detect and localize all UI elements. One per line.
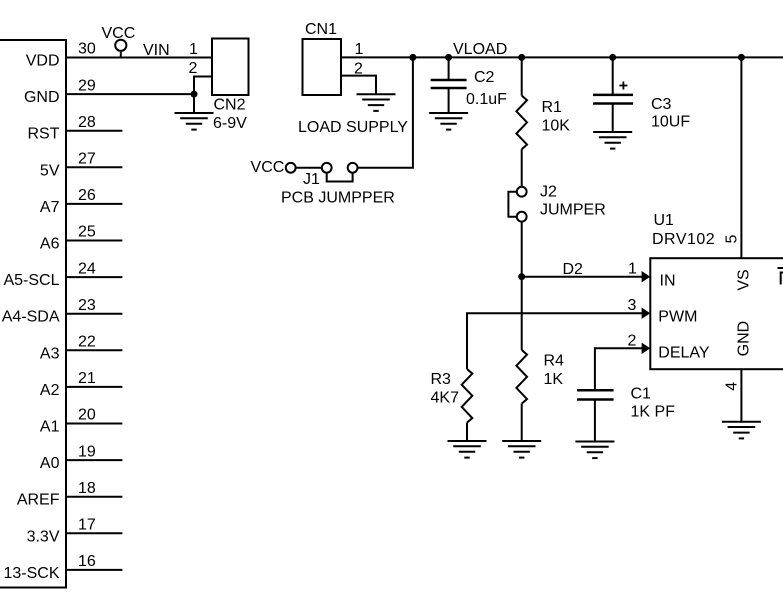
svg-text:VIN: VIN [143,42,170,59]
svg-text:0.1uF: 0.1uF [466,91,507,108]
IC U1 DRV102 body [650,258,783,369]
wire U1 pin 5 to VLOAD [740,57,742,258]
svg-text:18: 18 [78,480,96,497]
pin 21 wire [66,386,122,388]
ground (R4) [502,441,541,458]
arrow into U1 pin 1 [642,271,651,282]
svg-text:AREF: AREF [17,492,60,509]
svg-text:6-9V: 6-9V [213,115,247,132]
svg-text:C3: C3 [651,96,672,113]
svg-text:4K7: 4K7 [431,390,460,407]
wire J1 pin1-pin2 [296,167,322,169]
pin 18 wire [66,496,122,498]
pin 30 wire [66,57,212,59]
svg-text:J2: J2 [540,184,557,201]
pin 20 wire [66,423,122,425]
svg-text:30: 30 [78,41,96,58]
svg-text:1K PF: 1K PF [631,404,676,421]
jumper J2 shunt link [508,192,516,217]
svg-text:10UF: 10UF [651,114,690,131]
svg-text:19: 19 [78,443,96,460]
pin 25 wire [66,240,122,242]
svg-text:2: 2 [189,60,198,77]
pin 17 wire [66,532,122,534]
svg-text:29: 29 [78,77,96,94]
ground (C3) [593,132,632,149]
svg-text:A6: A6 [40,236,60,253]
C3 plus sign [619,82,627,90]
svg-text:17: 17 [78,517,96,534]
svg-text:21: 21 [78,370,96,387]
resistor R1 [516,57,527,186]
arrow into U1 pin 3 [642,308,651,319]
svg-text:JUMPER: JUMPER [540,202,606,219]
svg-text:A7: A7 [40,199,60,216]
connector CN1 body [303,39,342,95]
U1 right-side pin label fragment (FLAG, cut off) [778,268,783,285]
svg-text:J1: J1 [303,171,320,188]
ground stem CN2 [193,94,195,113]
jumper J1 pin 3 pad [348,163,358,173]
svg-text:25: 25 [78,224,96,241]
svg-text:DRV102: DRV102 [652,231,715,248]
junction dot J1 riser [409,54,416,61]
svg-text:27: 27 [78,151,96,168]
connector J3 host header body [0,40,66,588]
svg-text:1: 1 [355,41,364,58]
svg-text:1: 1 [189,41,198,58]
svg-text:GND: GND [24,89,60,106]
connector CN2 body [212,39,249,96]
junction dot C3 [609,54,616,61]
svg-text:10K: 10K [542,117,571,134]
ground (R3) [448,441,487,458]
svg-text:1K: 1K [544,371,564,388]
svg-text:CN2: CN2 [214,97,246,114]
svg-text:4: 4 [723,382,740,391]
resistor R3 [462,369,473,441]
junction dot node D2 [518,273,525,280]
svg-text:VCC: VCC [251,159,285,176]
svg-text:A2: A2 [40,382,60,399]
svg-text:CN1: CN1 [305,21,337,38]
svg-text:D2: D2 [563,261,584,278]
svg-text:R4: R4 [544,353,565,370]
capacitor C2 [431,57,467,113]
svg-text:C1: C1 [631,386,652,403]
pin 29 wire [66,93,194,95]
svg-text:13-SCK: 13-SCK [3,565,59,582]
ground (CN1) [357,94,396,111]
svg-text:2: 2 [628,332,637,349]
wire U1 pin 2 DELAY to C1 [595,348,642,389]
pin 26 wire [66,203,122,205]
svg-text:IN: IN [660,272,676,289]
svg-text:A3: A3 [40,345,60,362]
resistor R4 [516,350,527,441]
svg-text:23: 23 [78,297,96,314]
svg-text:A4-SDA: A4-SDA [2,309,60,326]
svg-text:VLOAD: VLOAD [453,41,507,58]
svg-text:VS: VS [736,269,753,290]
junction dot GND/CN2 [191,91,198,98]
svg-text:GND: GND [736,321,753,357]
svg-text:A0: A0 [40,455,60,472]
junction dot C2 [445,54,452,61]
svg-text:VDD: VDD [26,53,60,70]
svg-text:20: 20 [78,407,96,424]
wire J1 pin3 to VLOAD riser [358,57,413,167]
svg-text:RST: RST [28,126,60,143]
jumper J2 pin 2 pad [517,212,527,222]
junction dot R1 [518,54,525,61]
svg-text:U1: U1 [654,212,675,229]
svg-text:R1: R1 [542,99,563,116]
pin 24 wire [66,276,122,278]
svg-text:A5-SCL: A5-SCL [3,272,59,289]
svg-text:VCC: VCC [102,25,136,42]
ground (C2) [429,113,468,130]
pin 19 wire [66,459,122,461]
ground (C1) [575,442,614,459]
svg-text:3: 3 [628,297,637,314]
svg-text:PWM: PWM [658,309,697,326]
svg-text:5: 5 [723,234,740,243]
arrow into U1 pin 2 [642,343,651,354]
wire node D2 to R4 [521,277,523,350]
svg-text:16: 16 [78,553,96,570]
jumper J2 pin 1 pad [517,187,527,197]
wire J2 to node D2 [521,222,523,277]
junction dot U1 pin5 [738,54,745,61]
svg-text:1: 1 [628,261,637,278]
svg-text:26: 26 [78,187,96,204]
svg-text:DELAY: DELAY [658,344,710,361]
wire U1 pin 4 to ground [740,369,742,422]
pin 28 wire [66,130,122,132]
wire U1 pin 3 PWM to R3 [467,313,642,369]
svg-text:C2: C2 [474,69,495,86]
svg-text:LOAD SUPPLY: LOAD SUPPLY [298,119,408,136]
svg-text:22: 22 [78,334,96,351]
svg-text:3.3V: 3.3V [27,528,60,545]
capacitor C3 (polarized) [593,57,633,132]
pin 16 wire [66,569,122,571]
pin 22 wire [66,349,122,351]
svg-text:24: 24 [78,260,96,277]
CN1 pin 2 wire [341,76,376,95]
svg-text:5V: 5V [40,162,60,179]
capacitor C1 [577,390,614,441]
power terminal VCC [102,25,136,58]
ground (U1 pin4) [722,422,761,439]
wire VLOAD net (CN1 pin1 to right edge) [341,56,783,58]
pin 23 wire [66,313,122,315]
ground (CN2) [175,113,214,130]
CN2 pin 2 wire [194,77,212,95]
pin 27 wire [66,166,122,168]
jumper J1 pin 1 pad [286,163,296,173]
svg-text:A1: A1 [40,419,60,436]
svg-text:PCB JUMPPER: PCB JUMPPER [281,190,395,207]
jumper J1 shunt link [327,173,353,182]
svg-text:R3: R3 [431,371,452,388]
wire node D2 to U1 pin 1 [522,276,642,278]
svg-text:28: 28 [78,114,96,131]
jumper J1 pin 2 pad [322,163,332,173]
